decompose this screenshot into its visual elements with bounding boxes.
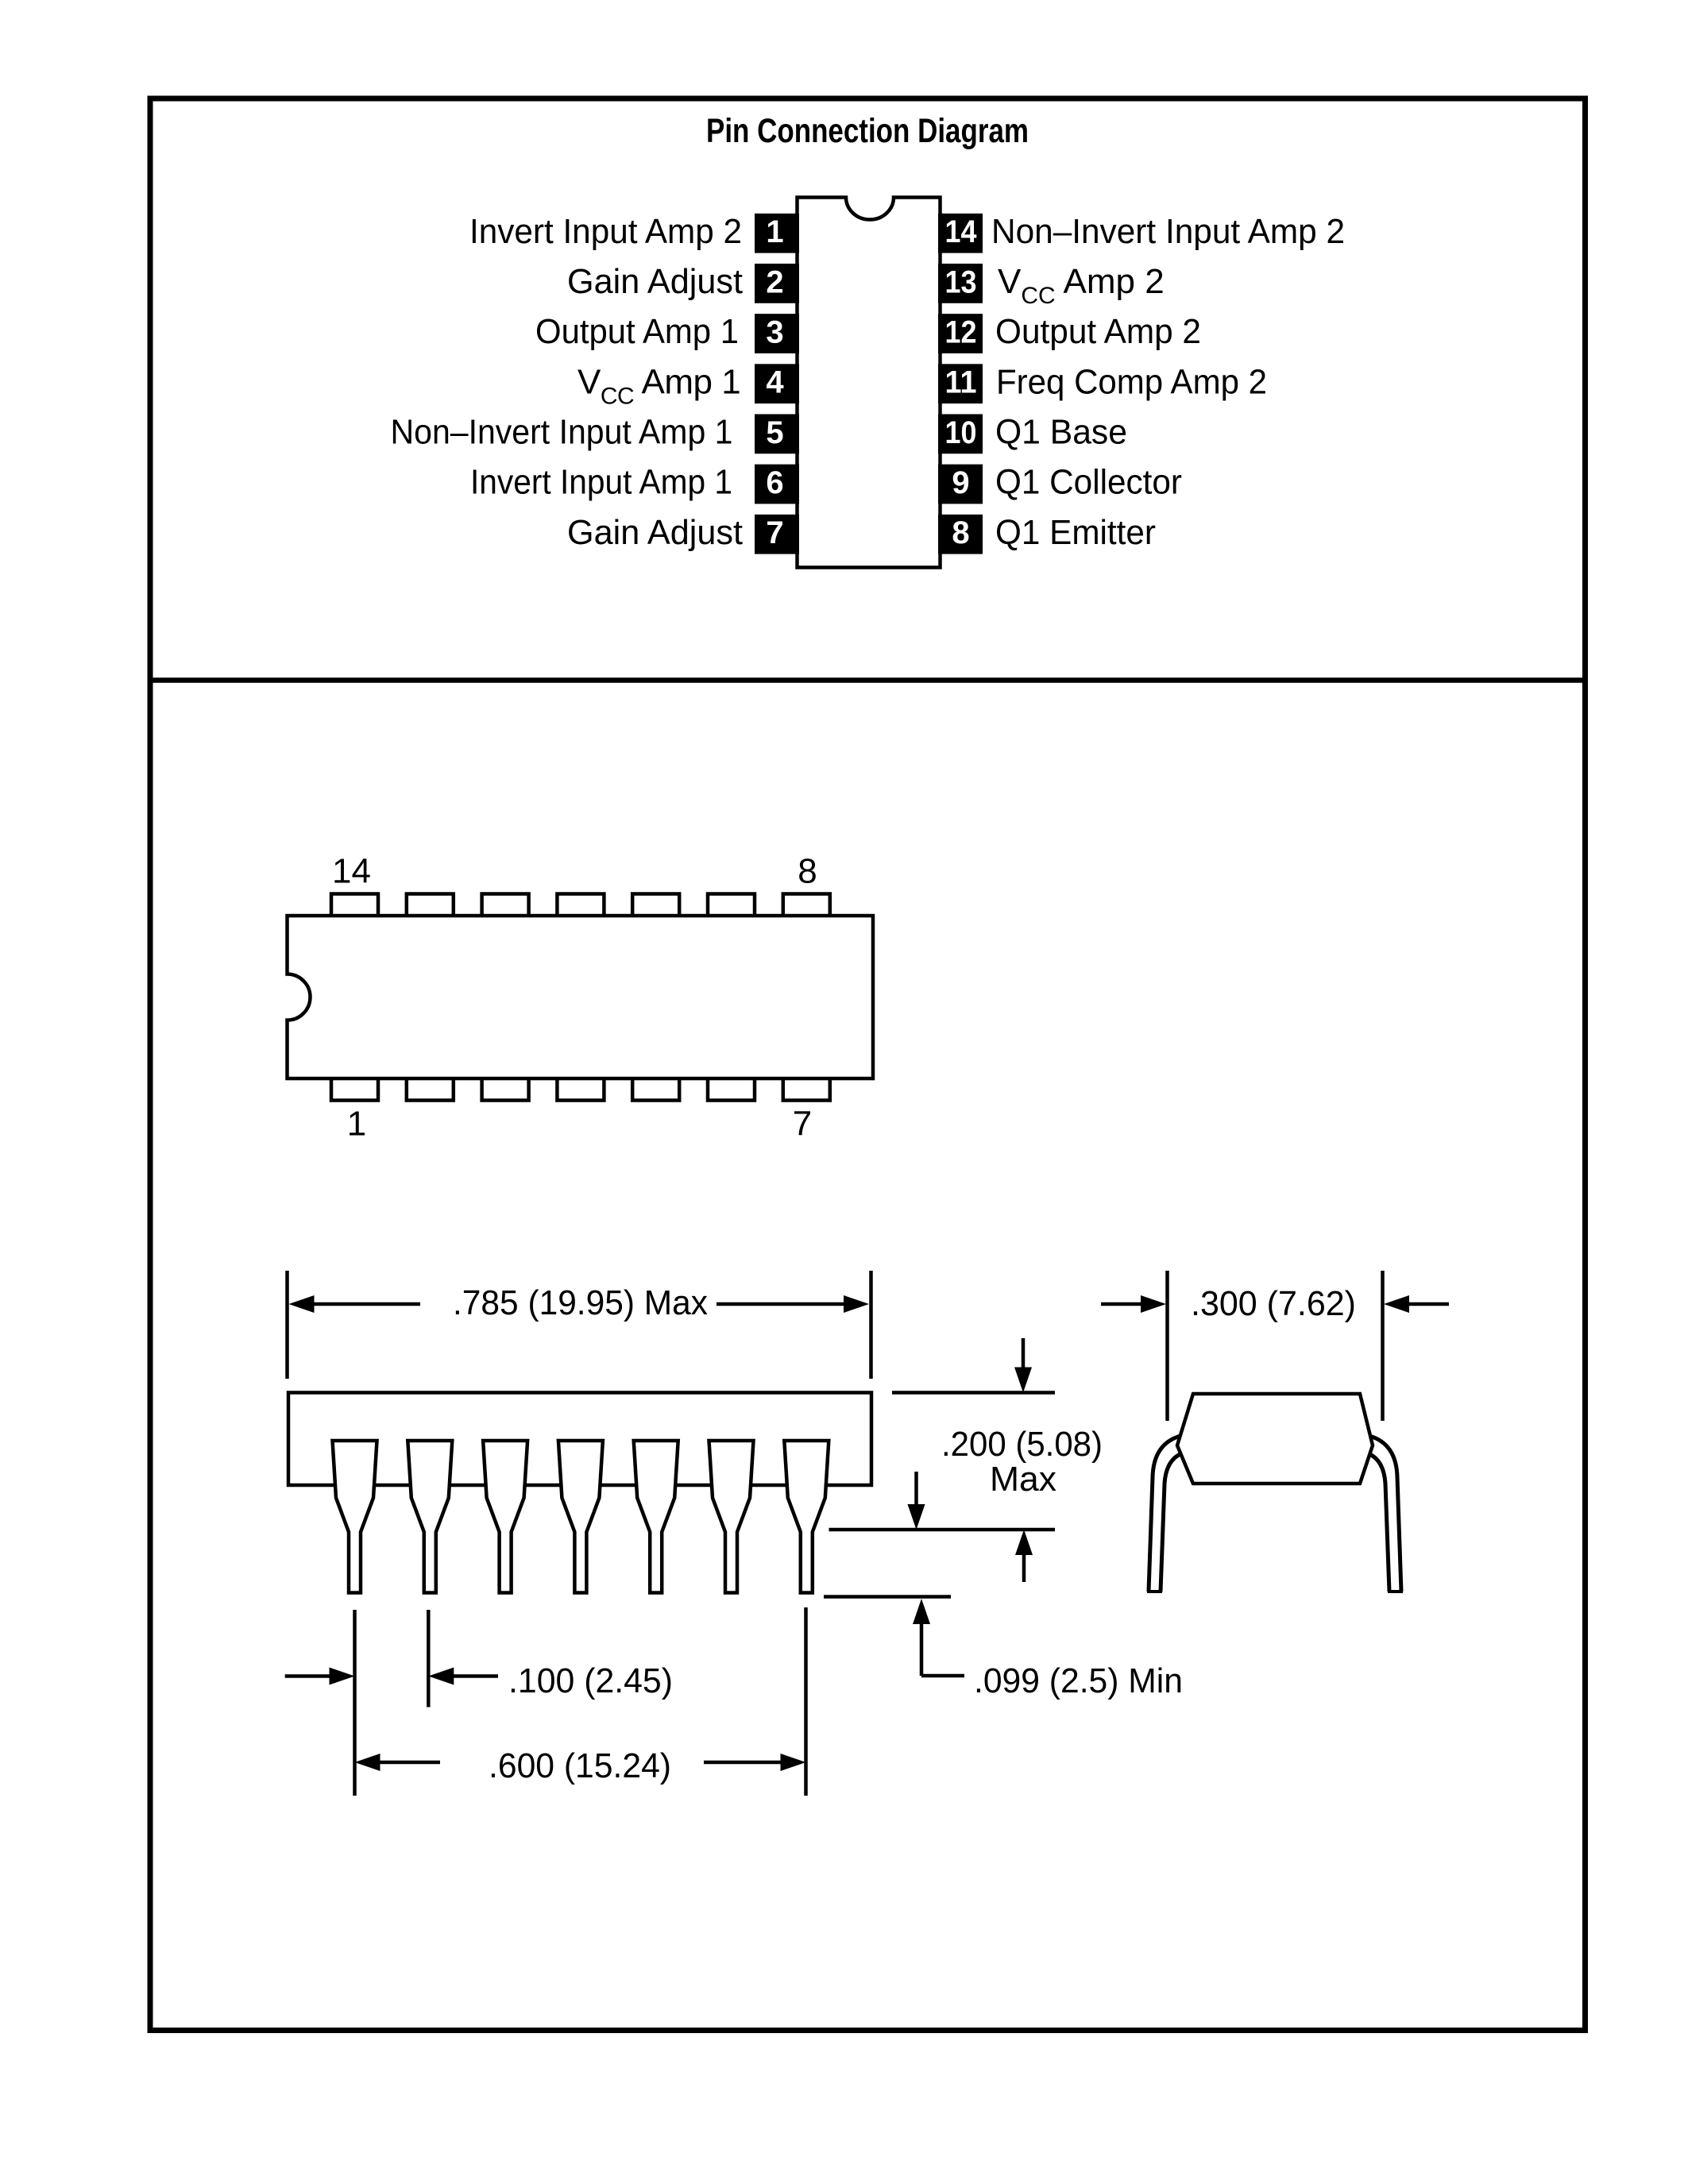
- svg-text:Freq Comp Amp 2: Freq Comp Amp 2: [996, 362, 1267, 401]
- svg-text:7: 7: [766, 515, 783, 550]
- top-view pin 6 tab: [708, 1077, 755, 1101]
- side-view package body: [288, 1393, 871, 1486]
- dimension .300 extension line right: [1381, 1271, 1385, 1421]
- svg-text:7: 7: [793, 1105, 812, 1144]
- top-view pin 12 tab: [482, 894, 529, 918]
- top-view pin 11 tab: [557, 894, 604, 918]
- dimension .099 pin tip line: [824, 1595, 951, 1599]
- dimension .099 bottom arrowhead: [913, 1599, 930, 1624]
- svg-text:Non–Invert Input Amp 1: Non–Invert Input Amp 1: [391, 413, 733, 452]
- svg-text:3: 3: [766, 315, 783, 350]
- svg-text:14: 14: [332, 852, 371, 891]
- side-view pin 1: [333, 1441, 377, 1593]
- pin 7 pad: [755, 515, 799, 554]
- end-view lead left tip: [1147, 1590, 1162, 1593]
- side-view pin 3: [483, 1441, 527, 1593]
- end-view package body: [1177, 1394, 1373, 1484]
- svg-text:12: 12: [945, 315, 977, 350]
- pin 5 pad: [755, 414, 799, 453]
- top-view pin 10 tab: [632, 894, 679, 918]
- svg-text:4: 4: [766, 365, 784, 400]
- dimension .785 extension line right: [869, 1271, 873, 1379]
- side-view pin 6: [709, 1441, 754, 1593]
- svg-text:.785 (19.95) Max: .785 (19.95) Max: [453, 1283, 708, 1322]
- dimension .600 arrow line left: [379, 1761, 440, 1765]
- dimension .785 arrow line right: [717, 1302, 844, 1306]
- svg-text:9: 9: [952, 465, 969, 500]
- dimension .100 arrow line left: [285, 1674, 330, 1678]
- top-view pin 9 tab: [708, 894, 755, 918]
- svg-text:5: 5: [766, 415, 783, 450]
- dimension .100 extension line pin1: [353, 1610, 357, 1796]
- svg-text:14: 14: [945, 214, 978, 249]
- svg-text:.600 (15.24): .600 (15.24): [489, 1746, 671, 1785]
- svg-text:Invert Input Amp 1: Invert Input Amp 1: [470, 463, 732, 502]
- pin 9 pad: [938, 465, 983, 504]
- top-view pin 13 tab: [407, 894, 454, 918]
- top-view pin 3 tab: [482, 1077, 529, 1101]
- dimension .785 right arrowhead: [844, 1295, 869, 1313]
- svg-text:6: 6: [766, 465, 783, 500]
- dimension .300 extension line left: [1165, 1271, 1169, 1421]
- side-view pin 5: [634, 1441, 678, 1593]
- svg-text:Q1 Base: Q1 Base: [995, 413, 1127, 452]
- dimension .200 seating plane line: [829, 1528, 1056, 1532]
- dimension .200 top arrowhead: [1014, 1368, 1032, 1393]
- svg-text:Non–Invert Input Amp 2: Non–Invert Input Amp 2: [991, 212, 1345, 251]
- svg-text:.100 (2.45): .100 (2.45): [508, 1661, 673, 1700]
- pin 1 pad: [755, 214, 799, 253]
- pin 4 pad: [755, 364, 799, 403]
- dimension .099 top arrowhead: [908, 1504, 925, 1530]
- svg-text:Output Amp 1: Output Amp 1: [535, 312, 739, 351]
- pin 6 pad: [755, 465, 799, 504]
- dimension .300 right arrowhead: [1384, 1295, 1409, 1313]
- dimension .300 left arrowhead: [1141, 1295, 1166, 1313]
- svg-text:.300 (7.62): .300 (7.62): [1191, 1284, 1356, 1323]
- top-view package body with index notch: [288, 916, 874, 1078]
- svg-text:Gain Adjust: Gain Adjust: [567, 262, 743, 301]
- dimension .785 extension line left: [285, 1271, 289, 1379]
- dimension .100 right arrowhead: [428, 1668, 454, 1685]
- dimension .200 bottom arrow stem: [1022, 1553, 1026, 1582]
- dimension .600 left arrowhead: [355, 1754, 380, 1771]
- top-view pin 1 tab: [331, 1077, 378, 1101]
- svg-text:8: 8: [798, 852, 817, 891]
- svg-text:1: 1: [347, 1105, 366, 1144]
- dimension .600 right arrowhead: [781, 1754, 806, 1771]
- svg-text:11: 11: [945, 365, 977, 400]
- dimension .785 left arrowhead: [289, 1295, 315, 1313]
- end-view lead left outer edge: [1149, 1436, 1180, 1592]
- dimension .300 arrow line right: [1408, 1302, 1449, 1306]
- dimension .600 extension line pin7: [804, 1607, 808, 1796]
- end-view lead right outer edge: [1369, 1436, 1401, 1592]
- svg-text:Output Amp 2: Output Amp 2: [995, 312, 1201, 351]
- svg-text:8: 8: [952, 515, 969, 550]
- top-view pin 4 tab: [557, 1077, 604, 1101]
- pin 2 pad: [755, 264, 799, 303]
- pin 10 pad: [938, 414, 983, 453]
- side-view pin 7: [784, 1441, 829, 1593]
- svg-text:Q1 Emitter: Q1 Emitter: [995, 513, 1156, 552]
- pin 8 pad: [938, 515, 983, 554]
- svg-text:Invert Input Amp 2: Invert Input Amp 2: [469, 212, 742, 251]
- dimension .785 arrow line left: [314, 1302, 420, 1306]
- svg-text:1: 1: [766, 214, 783, 249]
- side-view pin 2: [408, 1441, 452, 1593]
- pin 3 pad: [755, 314, 799, 353]
- end-view lead right inner edge: [1368, 1453, 1389, 1592]
- top-view pin 2 tab: [407, 1077, 454, 1101]
- side-view pin 4: [558, 1441, 603, 1593]
- top-view pin 14 tab: [331, 894, 378, 918]
- dimension .100 arrow line right: [453, 1674, 498, 1678]
- svg-text:Q1 Collector: Q1 Collector: [995, 463, 1182, 502]
- pin 14 pad: [938, 214, 983, 253]
- dimension .600 arrow line right: [704, 1761, 782, 1765]
- dimension .200 reference line top: [892, 1391, 1055, 1395]
- IC U1 body (14-pin DIP, pin connection diagram): [798, 198, 941, 568]
- pin 13 pad: [938, 264, 983, 303]
- dimension .300 arrow line left: [1101, 1302, 1142, 1306]
- dimension .200 top arrow stem: [1022, 1338, 1026, 1370]
- svg-text:2: 2: [766, 264, 783, 299]
- pin 12 pad: [938, 314, 983, 353]
- dimension .100 extension line pin2: [427, 1610, 431, 1707]
- end-view lead right tip: [1388, 1590, 1403, 1593]
- dimension .099 top arrow stem: [914, 1472, 918, 1507]
- svg-text:Gain Adjust: Gain Adjust: [567, 513, 743, 552]
- svg-text:.099 (2.5) Min: .099 (2.5) Min: [974, 1661, 1183, 1700]
- section divider line: [148, 677, 1589, 683]
- dimension .100 left arrowhead: [330, 1668, 355, 1685]
- svg-text:Max: Max: [990, 1460, 1056, 1499]
- svg-text:.200 (5.08): .200 (5.08): [941, 1425, 1103, 1464]
- outer border frame: [150, 98, 1586, 2031]
- end-view lead left inner edge: [1161, 1453, 1182, 1592]
- svg-text:Pin Connection Diagram: Pin Connection Diagram: [706, 112, 1029, 150]
- pin 11 pad: [938, 364, 983, 403]
- dimension .099 leader line: [921, 1674, 964, 1678]
- top-view pin 8 tab: [783, 894, 830, 918]
- top-view pin 7 tab: [783, 1077, 830, 1101]
- svg-text:10: 10: [945, 415, 977, 450]
- dimension .200 bottom arrowhead: [1015, 1530, 1033, 1555]
- dimension .099 bottom arrow stem: [920, 1623, 924, 1676]
- svg-text:13: 13: [945, 264, 977, 299]
- top-view pin 5 tab: [632, 1077, 679, 1101]
